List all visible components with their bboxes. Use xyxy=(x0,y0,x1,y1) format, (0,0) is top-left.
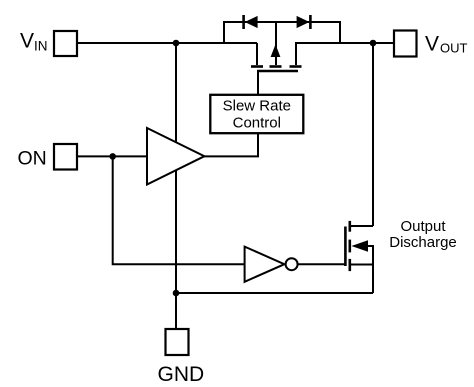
svg-text:OUT: OUT xyxy=(440,40,468,55)
svg-text:Slew Rate: Slew Rate xyxy=(223,98,291,115)
svg-text:GND: GND xyxy=(158,363,205,386)
svg-text:V: V xyxy=(20,30,34,53)
svg-text:IN: IN xyxy=(34,39,48,54)
svg-text:ON: ON xyxy=(18,147,47,169)
svg-text:Output: Output xyxy=(400,218,446,235)
svg-text:V: V xyxy=(425,32,439,55)
svg-text:Control: Control xyxy=(233,115,281,132)
svg-text:Discharge: Discharge xyxy=(389,234,457,251)
